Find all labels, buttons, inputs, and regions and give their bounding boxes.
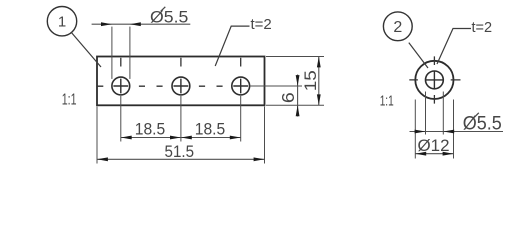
dia 5.5 arrow left	[101, 22, 112, 26]
vertical centerline dash above hole H2	[180, 58, 182, 67]
svg-text:18.5: 18.5	[195, 120, 226, 139]
balloon 1 leader	[72, 33, 102, 67]
leader t=2 left	[215, 26, 249, 66]
dim 15 arrow top	[317, 57, 321, 68]
svg-text:Ø5.5: Ø5.5	[463, 113, 502, 134]
hole H2 center cross	[174, 79, 189, 94]
dia 5.5 dimension line	[92, 23, 191, 25]
extension line below hole H3	[240, 96, 242, 142]
dia 12 arrow left	[415, 152, 426, 156]
extension line top right corner	[266, 56, 324, 58]
dia 12 arrow right	[443, 152, 454, 156]
dim 18.5 arrow far left	[121, 136, 132, 140]
dim 51.5 arrow left	[97, 157, 108, 161]
svg-text:15: 15	[301, 70, 320, 91]
dia 12 dimension line	[415, 153, 453, 155]
dim 18.5 line	[121, 137, 241, 139]
dia 5.5 arrow right	[130, 22, 141, 26]
extension line inner left	[425, 92, 427, 135]
dia 5.5 extension line left	[111, 27, 113, 79]
extension line outer left	[414, 100, 416, 159]
dim 6 arrow bottom (outside, pointing up)	[296, 105, 300, 116]
dim 15 line	[318, 57, 320, 106]
svg-text:51.5: 51.5	[165, 142, 195, 161]
hole H3 center cross	[233, 79, 248, 94]
hole H2 circle	[172, 77, 190, 95]
svg-text:2: 2	[393, 19, 402, 36]
boss center cross	[425, 71, 444, 90]
balloon 1 circle	[47, 7, 76, 36]
dia 5.5 right arrow right (outside, pointing left)	[443, 130, 454, 134]
vertical centerline dash above hole H1	[120, 58, 122, 67]
hole H1 center cross	[113, 79, 128, 94]
dim 15 arrow bottom	[317, 94, 321, 105]
extension line bottom right corner	[266, 104, 324, 106]
svg-text:Ø12: Ø12	[418, 136, 450, 155]
extension line plate right edge	[264, 107, 266, 164]
svg-text:18.5: 18.5	[135, 120, 166, 139]
dim 18.5 arrows middle	[170, 136, 192, 140]
svg-text:t=2: t=2	[251, 16, 272, 33]
svg-text:1:1: 1:1	[62, 92, 77, 109]
dim 6 line	[297, 75, 299, 117]
boss outer circle	[415, 61, 453, 99]
boss centerline dashes	[409, 56, 460, 103]
extension line below hole H1	[120, 96, 122, 142]
svg-text:6: 6	[278, 92, 298, 103]
dia 5.5 right slash extension	[474, 113, 479, 118]
hole H1 circle	[112, 77, 130, 95]
svg-text:1: 1	[58, 14, 66, 31]
extension line below hole H2	[180, 96, 182, 142]
balloon 2 leader	[409, 43, 428, 68]
extension line outer right	[453, 100, 455, 159]
dim 18.5 arrow far right	[230, 136, 241, 140]
svg-text:1:1: 1:1	[380, 93, 394, 110]
leader t=2 right	[437, 29, 471, 65]
balloon 2 circle	[383, 12, 412, 41]
hole H3 circle	[232, 77, 250, 95]
plate outline	[97, 57, 265, 106]
extension line hole center right	[250, 85, 302, 87]
svg-text:Ø5.5: Ø5.5	[150, 7, 188, 26]
dim 51.5 line	[97, 158, 265, 160]
dim 51.5 arrow right	[254, 157, 265, 161]
boss inner hole circle	[426, 71, 444, 89]
dia 5.5 right arrow left (outside, pointing right)	[415, 130, 426, 134]
vertical centerline dash above hole H3	[240, 58, 242, 67]
extension line inner right	[442, 92, 444, 135]
dia 5.5 extension line right	[129, 27, 131, 79]
svg-text:t=2: t=2	[472, 20, 493, 36]
dia 5.5 slash extension	[161, 7, 166, 11]
extension line plate left edge	[96, 107, 98, 164]
dim 6 arrow top (outside, pointing down)	[296, 75, 300, 86]
horizontal centerline dashes	[97, 85, 222, 87]
dia 5.5 right dimension line	[410, 131, 504, 133]
